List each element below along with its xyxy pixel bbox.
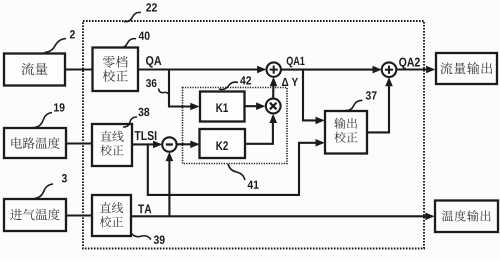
wire K1 to multiplier — [245, 105, 264, 107]
block: temperature output — [435, 201, 498, 233]
wire K2 to multiplier (right then up) — [245, 116, 273, 144]
multiplier junction (x) — [266, 99, 281, 114]
block 40: zero correction — [93, 48, 139, 92]
block: circuit temperature — [4, 128, 66, 158]
wire subtractor to K2 — [177, 143, 198, 145]
wire intake-temp to linear-correction 39 — [66, 214, 93, 216]
block: intake air temperature — [4, 199, 66, 231]
wire TLSI: block38 to subtractor — [132, 143, 160, 145]
label 3 — [35, 184, 54, 199]
block K1 — [200, 92, 245, 122]
summing junction 2 (+) QA2 — [382, 62, 397, 77]
label 36 — [146, 79, 151, 87]
dashed boundary box 22 — [83, 21, 424, 249]
wire multiplier up to summing junction 1 — [272, 79, 274, 99]
label 39 — [131, 233, 151, 240]
block 38: linear correction — [92, 124, 132, 166]
block 37: output correction — [325, 111, 367, 154]
inner dashed box group 41 — [183, 88, 288, 164]
wire TA branch up to subtractor — [168, 154, 170, 216]
label TA — [138, 204, 144, 213]
wire TA: block39 to temperature output — [131, 215, 432, 217]
label 41 — [228, 164, 245, 180]
block: flow output — [436, 53, 497, 84]
wire QA1 to summing junction 2 — [281, 69, 380, 71]
label 22 — [124, 12, 141, 21]
label QA — [146, 56, 153, 67]
wire output-correction to summing junction 2 — [367, 79, 389, 132]
block: flow (liuliang) — [4, 54, 65, 86]
wire circuit-temp to linear-correction 38 — [66, 142, 93, 144]
summing junction 1 (+) QA1 — [267, 62, 281, 76]
subtractor junction (-) — [162, 137, 176, 151]
label QA1 — [287, 57, 293, 68]
wire flow to zero-correction — [65, 68, 93, 70]
block K2 — [200, 129, 246, 158]
wire TLSI branch down and right to output correction — [148, 143, 323, 195]
label 2 — [45, 39, 67, 53]
wire QA1 branch down to output correction — [303, 70, 323, 121]
wire QA: block40 to summing junction 1 — [138, 68, 264, 70]
wire QA branch down to K1 — [169, 70, 198, 107]
label 38 — [123, 117, 137, 127]
label delta-Y — [282, 78, 288, 86]
block 39: linear correction — [92, 195, 131, 236]
label 19 — [35, 113, 53, 128]
label 37 — [345, 100, 363, 110]
label 42 — [219, 82, 238, 89]
wire QA2 to flow output — [396, 68, 433, 70]
label TLSI — [135, 131, 141, 140]
label 40 — [119, 39, 136, 48]
label QA2 — [399, 58, 406, 69]
